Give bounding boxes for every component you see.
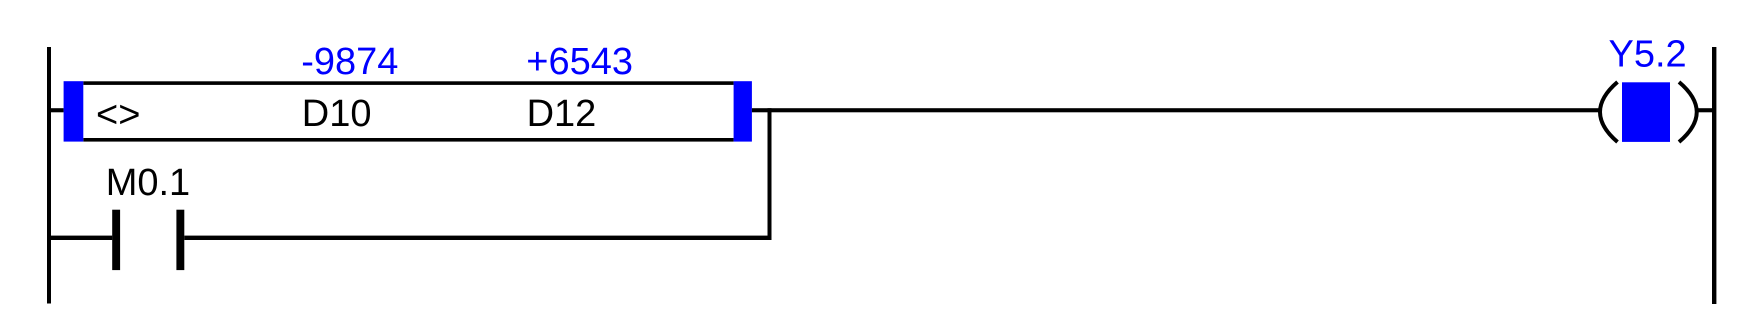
coil Y5.2 right arc <box>1679 82 1697 142</box>
svg-text:M0.1: M0.1 <box>106 162 190 204</box>
comparator input connector (powered, blue) <box>64 81 84 141</box>
svg-text:D10: D10 <box>302 93 372 135</box>
wire: comparator output to coil <box>752 108 1600 112</box>
comparator output connector (powered, blue) <box>734 81 752 141</box>
contact M0.1 right bar <box>176 210 184 270</box>
svg-text:<>: <> <box>96 94 140 136</box>
coil Y5.2 state square (powered, blue) <box>1622 82 1670 142</box>
contact M0.1 left bar <box>112 210 120 270</box>
right power rail <box>1712 47 1716 304</box>
svg-text:D12: D12 <box>527 93 597 135</box>
comparator block body <box>64 81 752 141</box>
wire: left rail to comparator input <box>51 108 64 112</box>
svg-text:Y5.2: Y5.2 <box>1609 34 1687 76</box>
left power rail <box>47 47 51 304</box>
svg-text:-9874: -9874 <box>301 41 398 83</box>
wire: left rail to contact M0.1 <box>51 236 112 240</box>
wire: contact M0.1 to branch junction <box>184 236 771 240</box>
coil Y5.2 left arc <box>1600 82 1618 142</box>
wire: coil to right rail <box>1697 108 1712 112</box>
wire: branch junction vertical <box>768 108 772 240</box>
svg-text:+6543: +6543 <box>526 41 633 83</box>
